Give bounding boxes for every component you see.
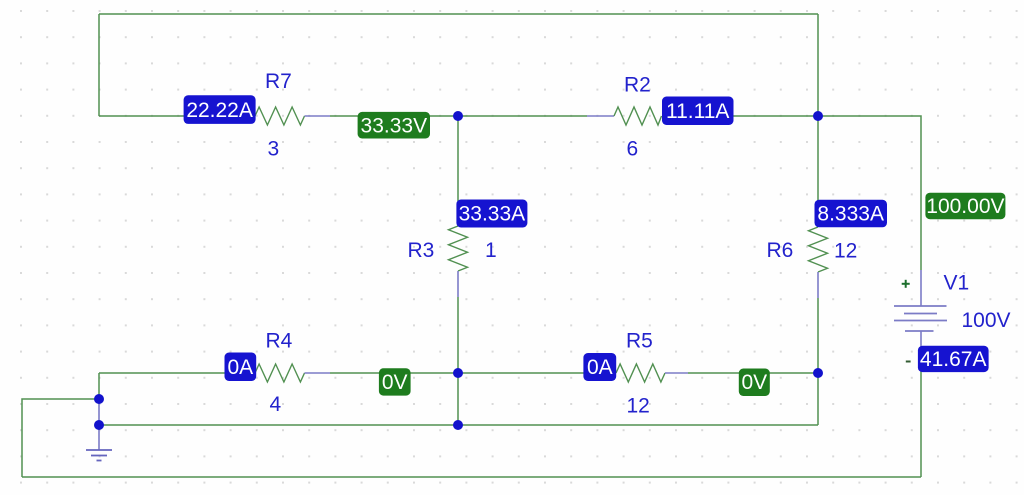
battery V1 value 100V	[962, 309, 1011, 332]
wire R7 row left	[99, 115, 232, 117]
svg-text:33.33V: 33.33V	[361, 114, 428, 137]
resistor R7 value 3	[268, 138, 280, 161]
junction node C	[453, 368, 463, 378]
current probe label 33.33A	[456, 200, 527, 228]
junction ground upper	[94, 394, 104, 404]
wire node B to battery branch	[818, 116, 921, 270]
svg-text:41.67A: 41.67A	[920, 348, 987, 371]
junction node A	[453, 111, 463, 121]
resistor R6	[809, 202, 828, 298]
resistor R5 value 12	[627, 395, 650, 418]
resistor R2	[587, 107, 688, 125]
wire node A to R2	[458, 115, 587, 117]
wire ground node stub left	[22, 399, 99, 477]
svg-text:R4: R4	[266, 330, 293, 353]
svg-text:1: 1	[485, 239, 497, 262]
svg-text:33.33A: 33.33A	[459, 203, 526, 226]
current probe label 11.11A	[662, 97, 734, 126]
junction node B	[813, 111, 823, 121]
svg-text:R7: R7	[265, 70, 292, 93]
current probe label 22.22A	[184, 95, 256, 124]
junction node D	[813, 368, 823, 378]
wire R5 to node D	[688, 372, 818, 374]
wire R4 to node C	[330, 372, 458, 374]
battery V1 label	[944, 272, 970, 295]
current probe label 0A at R5	[583, 353, 616, 381]
wire R6 bottom lead to node D	[817, 298, 819, 373]
voltage probe label 33.33V	[358, 112, 430, 139]
current probe label 41.67A	[918, 346, 989, 372]
resistor R6 value 12	[834, 240, 857, 263]
svg-text:8.333A: 8.333A	[817, 203, 884, 226]
wire right vertical bottom to battery	[920, 371, 922, 477]
resistor R5	[591, 364, 688, 382]
svg-text:0A: 0A	[227, 356, 253, 379]
svg-text:0V: 0V	[382, 371, 408, 394]
resistor R6 label	[767, 239, 794, 262]
wire left vertical to ground node	[98, 373, 100, 400]
resistor R2 label	[624, 74, 651, 97]
resistor R4 value 4	[270, 393, 282, 416]
resistor R5 label	[626, 330, 653, 353]
ground	[86, 399, 112, 461]
wire node B down to R6	[817, 116, 819, 202]
svg-text:4: 4	[270, 393, 282, 416]
resistor R3 value 1	[485, 239, 497, 262]
wire node D down to return row	[817, 373, 819, 425]
voltage probe label 0V at R5	[739, 369, 770, 397]
resistor R2 value 6	[627, 138, 639, 161]
current probe label 8.333A	[815, 200, 888, 228]
svg-text:V1: V1	[944, 272, 970, 295]
svg-text:12: 12	[834, 240, 857, 263]
svg-text:R2: R2	[624, 74, 651, 97]
resistor R7	[230, 107, 330, 125]
wire R7 row right to node A	[330, 115, 458, 117]
resistor R7 label	[265, 70, 292, 93]
wire left vertical top	[98, 14, 100, 116]
svg-text:R3: R3	[408, 239, 435, 262]
battery V1 plus mark	[902, 280, 910, 288]
wire node A down to R3	[457, 116, 459, 201]
junction return row	[453, 420, 463, 430]
svg-text:100V: 100V	[962, 309, 1011, 332]
svg-text:12: 12	[627, 395, 650, 418]
wire node C to R5	[458, 372, 591, 374]
voltage probe label 100.00V	[925, 193, 1005, 220]
resistor R4	[230, 364, 330, 382]
svg-text:0V: 0V	[741, 371, 767, 394]
svg-text:100.00V: 100.00V	[926, 195, 1004, 218]
wire R2 to node B	[688, 115, 818, 117]
wire node C down to return row	[457, 373, 459, 425]
svg-text:R5: R5	[626, 330, 653, 353]
wire R3 bottom lead to node C	[457, 297, 459, 373]
wire right vertical top	[817, 14, 819, 116]
resistor R3	[449, 201, 468, 297]
resistor R3 label	[408, 239, 435, 262]
wire R4 row left	[99, 372, 232, 374]
svg-text:11.11A: 11.11A	[666, 100, 729, 123]
svg-text:6: 6	[627, 138, 639, 161]
wire bottom return row	[99, 424, 818, 426]
battery V1	[894, 270, 947, 371]
voltage probe label 0V at R4	[379, 368, 411, 395]
wire top horizontal	[99, 13, 818, 15]
svg-text:R6: R6	[767, 239, 794, 262]
current probe label 0A at R4	[225, 353, 257, 382]
battery V1 minus mark	[906, 361, 911, 363]
wire bottom horizontal	[22, 476, 921, 478]
junction ground lower	[94, 420, 104, 430]
resistor R4 label	[266, 330, 293, 353]
svg-text:0A: 0A	[587, 356, 613, 379]
svg-text:3: 3	[268, 138, 280, 161]
svg-text:22.22A: 22.22A	[186, 99, 253, 122]
